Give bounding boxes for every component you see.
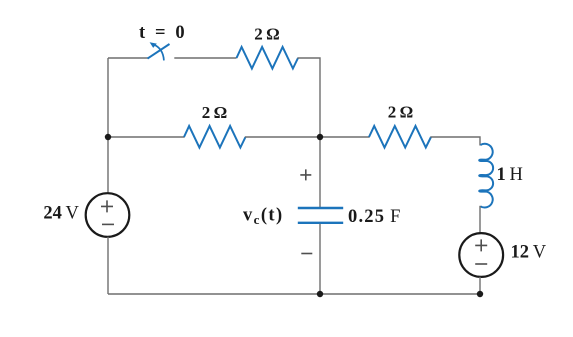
wire R3 to inductor corner [431,137,481,146]
svg-text:1 H: 1 H [497,165,523,185]
resistor R3 2ohm (right) [369,126,431,148]
svg-text:2 Ω: 2 Ω [254,25,280,44]
inductor L1 1H coil [479,144,493,208]
wire left rail lower [107,237,109,294]
wire V2 to bottom junction [479,277,481,294]
switch S1 arrowhead [150,42,157,48]
capacitor C1 bottom plate [298,222,343,224]
node B junction (center-middle) [317,134,323,140]
wire switch to R1 [174,57,236,59]
capacitor minus polarity [301,253,312,255]
wire bottom rail [108,293,480,295]
voltage source V1 24V circle [86,193,130,237]
wire middle rail center [245,136,370,138]
capacitor C1 top plate [298,207,343,209]
V1 minus [102,223,114,225]
svg-text:24 V: 24 V [43,204,79,224]
wire capacitor bottom stub [319,224,321,294]
voltage source V2 12V circle [459,233,503,277]
wire middle rail left [108,136,185,138]
svg-text:0.25 F: 0.25 F [348,207,402,227]
node D junction (right-bottom) [477,291,483,297]
svg-text:t = 0: t = 0 [139,23,185,43]
V1 plus [101,200,113,212]
svg-text:12 V: 12 V [511,243,547,263]
switch S1 (opening at t=0) blade [148,44,170,59]
wire R1 to middle junction [298,58,321,137]
V2 minus [475,263,487,265]
wire left rail upper [107,58,109,194]
svg-text:2 Ω: 2 Ω [388,103,414,122]
switch S1 opening arc [153,44,164,60]
capacitor plus polarity [300,169,311,180]
resistor R2 2ohm (middle) [184,126,246,148]
svg-text:2 Ω: 2 Ω [202,103,228,122]
node C junction (center-bottom) [317,291,323,297]
wire inductor to V2 [479,206,481,234]
V2 plus [475,239,487,251]
node A junction (left-middle) [105,134,111,140]
resistor R1 2ohm (top) [237,47,299,69]
wire capacitor top stub [319,137,321,207]
svg-text:vc(t): vc(t) [243,206,284,228]
wire top-left (node to switch) [108,57,148,59]
